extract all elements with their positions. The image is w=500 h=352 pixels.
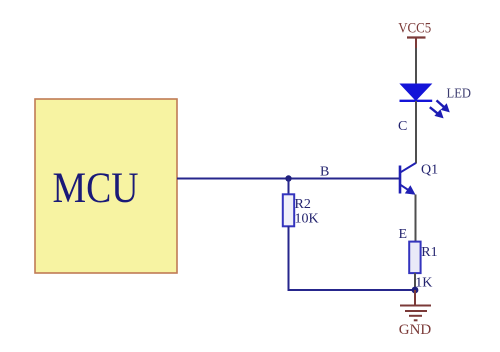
svg-text:C: C — [398, 119, 407, 134]
junction dot emitter resistor to ground rail — [412, 287, 419, 294]
ground symbol — [400, 306, 431, 321]
svg-text:LED: LED — [447, 86, 472, 101]
svg-text:VCC5: VCC5 — [398, 21, 431, 37]
svg-text:Q1: Q1 — [421, 163, 438, 178]
wire MCU output to base of Q1 (net B) — [177, 178, 400, 180]
svg-text:1K: 1K — [415, 275, 432, 290]
wire R1 bottom to ground junction — [414, 273, 416, 290]
wire node B down to R2 — [288, 179, 290, 196]
LED light emission arrow 2 — [430, 107, 444, 118]
transistor Q1 (NPN) — [400, 163, 416, 195]
wire junction to ground symbol — [414, 290, 416, 306]
resistor R2 — [283, 194, 294, 226]
LED diode — [400, 84, 433, 101]
power symbol VCC5 — [398, 21, 431, 51]
svg-text:R1: R1 — [421, 245, 437, 260]
wire emitter of Q1 to R1 — [415, 195, 417, 243]
LED light emission arrow 1 — [437, 100, 450, 112]
junction dot node B — [285, 175, 291, 181]
svg-text:GND: GND — [399, 322, 432, 338]
svg-text:R2: R2 — [295, 197, 311, 212]
wire R2 bottom to ground rail — [289, 226, 416, 290]
resistor R1 — [409, 242, 420, 274]
wire VCC5 to LED anode — [415, 48, 417, 85]
svg-text:B: B — [320, 165, 329, 180]
svg-text:10K: 10K — [295, 212, 319, 227]
MCU block — [35, 99, 177, 273]
wire LED cathode to collector of Q1 — [415, 101, 417, 164]
svg-text:E: E — [399, 227, 408, 242]
svg-text:MCU: MCU — [53, 165, 139, 212]
